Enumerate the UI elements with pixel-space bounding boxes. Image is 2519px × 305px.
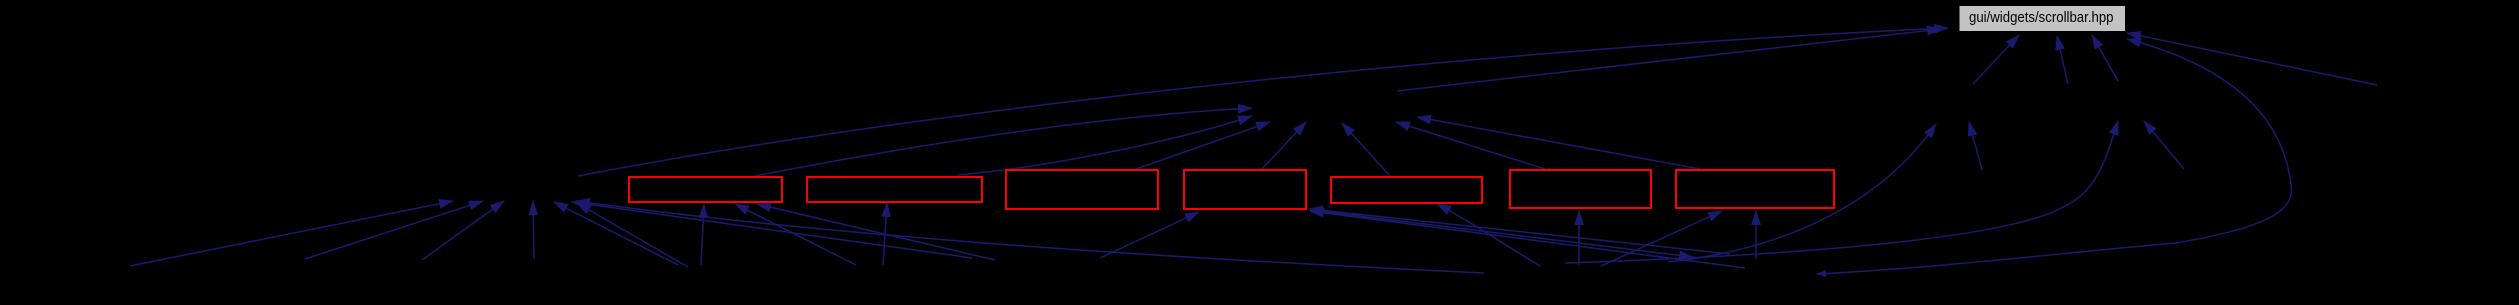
wire: bottom node to node L tip4 vertical: [533, 201, 534, 259]
wire: bottom node to node L tip2: [305, 201, 483, 259]
wire: bottom node to node L tip5: [554, 202, 678, 265]
wire: box R1 to node M: [755, 108, 1252, 176]
wire: box R4 to node M: [1262, 122, 1306, 169]
wire: box R7 to node M: [1417, 117, 1700, 169]
wire: bottom right node to box R4 corner: [1309, 209, 1730, 254]
wire: box R5 to node M: [1342, 123, 1390, 176]
svg-text:gui/widgets/scrollbar.hpp: gui/widgets/scrollbar.hpp: [1969, 9, 2114, 26]
wire: bottom node to box R7 vertical: [1755, 211, 1757, 259]
wire: bottom node to box R6 vertical: [1578, 211, 1580, 265]
wire: bottom node to node L tip3: [422, 201, 504, 260]
box R6: [1510, 170, 1651, 208]
wire: node B to top node T: [2092, 35, 2118, 81]
box R2: [807, 177, 982, 202]
wire: node C to top node T long right: [2127, 33, 2377, 85]
box R4: [1184, 170, 1306, 209]
wire: bottom node to box R1 right: [757, 204, 995, 260]
wire: fan node to box R5 bottom: [1437, 204, 1540, 266]
wire: box R4 corner to bottom node N right-pointing: [1310, 210, 1693, 257]
box R5: [1331, 177, 1482, 203]
box R3: [1006, 170, 1158, 209]
wire: row2 node to node A short: [1969, 122, 1982, 170]
node T gui/widgets/scrollbar.hpp: [1960, 6, 2126, 31]
wire: bottom node to box R1 vertical: [701, 204, 704, 265]
wire: row2 node to node B short: [2144, 121, 2184, 169]
box R7: [1676, 170, 1834, 208]
wire: bottom right node to box R4 corner lower: [1310, 211, 1745, 268]
wire: bottom node to box R4 left: [1100, 212, 1199, 258]
wire: bottom node to node L shallow2: [576, 201, 1484, 273]
wire: bottom node to node L tip1: [130, 201, 453, 266]
wire: fan node big curve to node B: [1565, 121, 2118, 263]
wire: fan node to box R7 left: [1601, 211, 1722, 266]
wire: bottom node to node L tip5b: [577, 203, 688, 267]
wire: box R3 to node M: [1136, 122, 1270, 169]
wire: node L to top node T long spline: [578, 28, 1948, 176]
wire: node A to top node T: [1973, 35, 2019, 84]
wire: bottom node to box R2 vertical: [883, 203, 887, 265]
wire: bottom node to box R1 mid: [735, 204, 856, 265]
box R1: [629, 177, 782, 202]
wire: bottom node big C curve to top node T: [1817, 39, 2292, 274]
wire: box R2 to node M: [958, 116, 1252, 175]
wire: bottom node curve to node A: [1668, 124, 1936, 262]
wire: box R6 to node M: [1396, 122, 1545, 169]
wire: node M to top node T: [1397, 29, 1941, 91]
wire: node A2 to top node T vertical: [2057, 36, 2068, 84]
wire: bottom node to node L shallow1: [572, 202, 972, 258]
